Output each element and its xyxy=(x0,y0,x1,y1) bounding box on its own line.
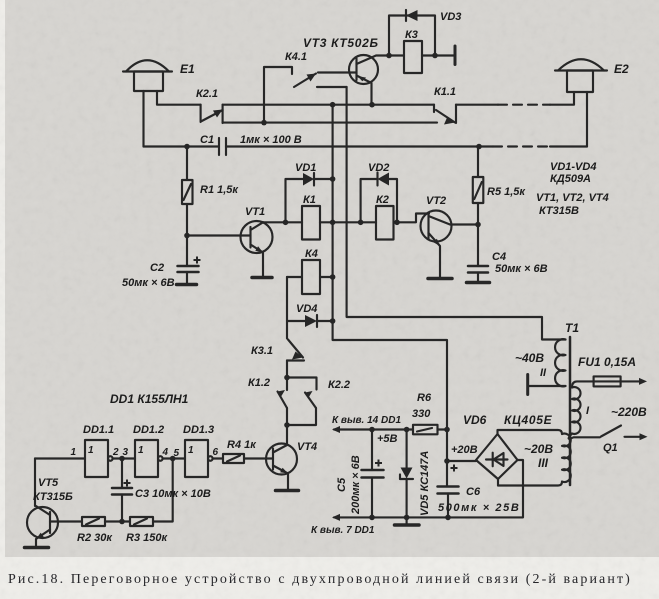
svg-text:+20В: +20В xyxy=(451,444,478,456)
svg-text:VD4: VD4 xyxy=(296,303,317,315)
svg-text:2: 2 xyxy=(112,447,119,458)
svg-text:КТ315В: КТ315В xyxy=(539,205,579,217)
svg-text:VT4: VT4 xyxy=(297,441,317,453)
svg-text:VD5 КС147А: VD5 КС147А xyxy=(419,451,431,516)
svg-text:FU1 0,15А: FU1 0,15А xyxy=(578,355,636,369)
svg-text:DD1.3: DD1.3 xyxy=(183,424,214,436)
svg-text:6: 6 xyxy=(213,447,219,458)
svg-text:VD1: VD1 xyxy=(295,162,316,174)
svg-text:Рис.18. Переговорное устройств: Рис.18. Переговорное устройство с двухпр… xyxy=(8,572,632,587)
svg-text:С5: С5 xyxy=(336,477,348,492)
svg-text:К4.1: К4.1 xyxy=(285,51,307,63)
svg-text:~20В: ~20В xyxy=(524,442,553,456)
svg-text:С4: С4 xyxy=(492,251,506,263)
svg-text:С3 10мк × 10В: С3 10мк × 10В xyxy=(135,488,211,500)
svg-text:200мк × 6В: 200мк × 6В xyxy=(350,455,362,515)
svg-text:500мк × 25В: 500мк × 25В xyxy=(438,502,520,514)
svg-text:R2 30к: R2 30к xyxy=(77,532,113,544)
svg-text:5: 5 xyxy=(174,448,180,459)
svg-text:50мк × 6В: 50мк × 6В xyxy=(122,277,175,289)
svg-text:VT3 КТ502Б: VT3 КТ502Б xyxy=(303,36,379,50)
svg-text:Е1: Е1 xyxy=(180,62,195,76)
svg-text:DD1.2: DD1.2 xyxy=(133,424,164,436)
svg-text:50мк × 6В: 50мк × 6В xyxy=(495,263,548,275)
svg-text:R1 1,5к: R1 1,5к xyxy=(200,184,239,196)
svg-text:3: 3 xyxy=(123,447,129,458)
svg-text:VD6: VD6 xyxy=(463,413,487,427)
svg-text:К3.1: К3.1 xyxy=(251,345,273,357)
svg-text:VD1-VD4: VD1-VD4 xyxy=(550,161,596,173)
svg-text:R5 1,5к: R5 1,5к xyxy=(487,186,526,198)
svg-text:К3: К3 xyxy=(405,29,418,41)
svg-text:330: 330 xyxy=(412,408,431,420)
svg-text:~40В: ~40В xyxy=(515,351,544,365)
svg-text:Е2: Е2 xyxy=(614,62,629,76)
svg-text:4: 4 xyxy=(162,447,169,458)
svg-text:К1.1: К1.1 xyxy=(434,86,456,98)
svg-text:К2.2: К2.2 xyxy=(328,379,350,391)
svg-text:Q1: Q1 xyxy=(603,442,618,454)
svg-text:VT1: VT1 xyxy=(245,206,265,218)
svg-text:К выв. 14 DD1: К выв. 14 DD1 xyxy=(332,415,401,426)
svg-text:1: 1 xyxy=(88,445,94,456)
svg-text:КД509А: КД509А xyxy=(550,173,591,185)
svg-text:R6: R6 xyxy=(417,392,432,404)
svg-text:R3 150к: R3 150к xyxy=(126,532,168,544)
svg-text:К4: К4 xyxy=(305,248,318,260)
svg-text:R4 1к: R4 1к xyxy=(227,439,257,451)
svg-text:К выв. 7 DD1: К выв. 7 DD1 xyxy=(311,525,375,536)
svg-text:VD3: VD3 xyxy=(440,11,461,23)
svg-text:К1.2: К1.2 xyxy=(248,377,270,389)
svg-text:III: III xyxy=(538,456,549,470)
svg-text:VT2: VT2 xyxy=(426,195,446,207)
svg-text:1: 1 xyxy=(138,445,144,456)
svg-text:Т1: Т1 xyxy=(565,321,579,335)
svg-text:1: 1 xyxy=(70,447,76,458)
svg-text:II: II xyxy=(540,367,547,379)
svg-text:DD1 К155ЛН1: DD1 К155ЛН1 xyxy=(110,392,189,406)
svg-text:С6: С6 xyxy=(466,486,481,498)
svg-text:DD1.1: DD1.1 xyxy=(83,424,114,436)
svg-text:К2.1: К2.1 xyxy=(196,88,218,100)
svg-text:~220В: ~220В xyxy=(611,405,647,419)
svg-text:С2: С2 xyxy=(150,262,164,274)
svg-text:КТ315Б: КТ315Б xyxy=(33,491,73,503)
svg-text:VT5: VT5 xyxy=(38,477,59,489)
svg-text:1мк × 100 В: 1мк × 100 В xyxy=(240,134,302,146)
svg-text:КЦ405Е: КЦ405Е xyxy=(504,413,553,427)
svg-text:К1: К1 xyxy=(303,194,316,206)
svg-text:VD2: VD2 xyxy=(368,162,389,174)
svg-text:К2: К2 xyxy=(376,194,389,206)
svg-text:С1: С1 xyxy=(200,134,214,146)
svg-text:+5В: +5В xyxy=(377,433,398,445)
svg-text:VT1, VT2, VT4: VT1, VT2, VT4 xyxy=(536,192,609,204)
svg-text:1: 1 xyxy=(188,445,194,456)
